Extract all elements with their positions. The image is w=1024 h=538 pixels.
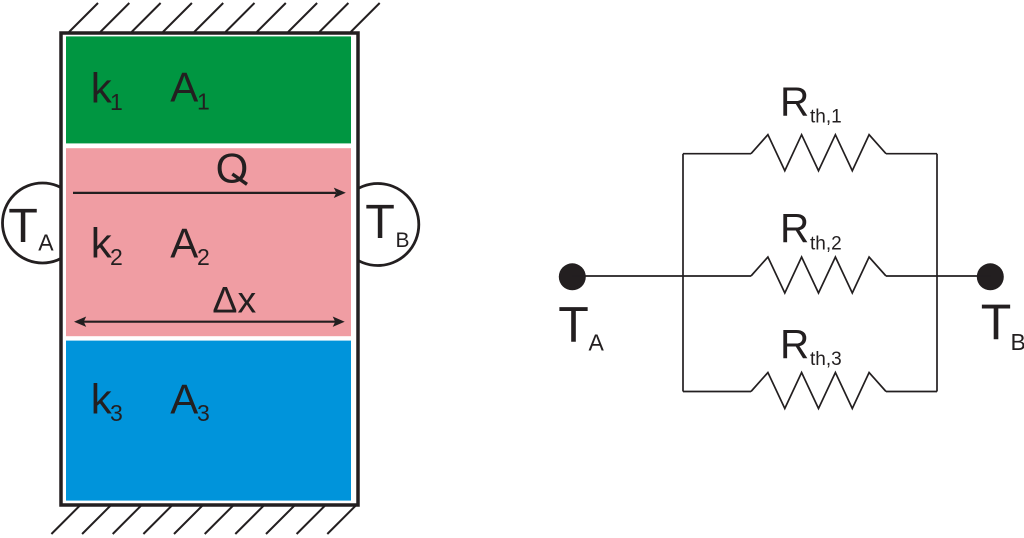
wire top-right lead bbox=[886, 153, 937, 155]
wire bottom-right lead bbox=[886, 391, 937, 393]
svg-text:2: 2 bbox=[197, 244, 210, 270]
svg-text:1: 1 bbox=[197, 89, 210, 115]
heat flow arrow Q bbox=[73, 192, 336, 194]
surface thermometer circle T_B (right) bbox=[337, 184, 419, 266]
node T_A dot bbox=[559, 263, 586, 290]
bottom wall hatching bbox=[51, 505, 356, 534]
svg-text:3: 3 bbox=[110, 400, 123, 426]
svg-text:A: A bbox=[589, 330, 605, 356]
svg-text:B: B bbox=[396, 229, 410, 252]
svg-text:2: 2 bbox=[110, 244, 123, 270]
resistor R_th,2 bbox=[751, 257, 886, 293]
svg-text:A: A bbox=[170, 64, 198, 111]
svg-text:1: 1 bbox=[110, 89, 123, 115]
svg-text:R: R bbox=[780, 78, 809, 124]
svg-text:T: T bbox=[8, 199, 38, 253]
svg-text:th,1: th,1 bbox=[810, 107, 842, 128]
wire left bus (vertical) bbox=[682, 154, 684, 392]
svg-text:B: B bbox=[1011, 329, 1024, 355]
resistor R_th,1 bbox=[751, 135, 886, 171]
thickness arrow delta-x (double headed) bbox=[83, 321, 336, 323]
svg-text:A: A bbox=[170, 376, 198, 423]
node T_B dot bbox=[977, 263, 1004, 290]
slab outer box bbox=[61, 33, 358, 505]
svg-text:Δx: Δx bbox=[212, 278, 256, 320]
wire right bus (vertical) bbox=[936, 154, 938, 392]
svg-text:T: T bbox=[558, 297, 589, 353]
svg-text:R: R bbox=[780, 321, 809, 367]
wire middle-left (from node T_A) bbox=[572, 275, 751, 277]
svg-text:th,2: th,2 bbox=[810, 234, 842, 255]
svg-text:th,3: th,3 bbox=[810, 349, 842, 370]
wire top-left lead bbox=[683, 153, 751, 155]
svg-text:T: T bbox=[981, 294, 1012, 350]
resistor R_th,3 bbox=[751, 373, 886, 409]
svg-text:3: 3 bbox=[197, 400, 210, 426]
wire bottom-left lead bbox=[683, 391, 751, 393]
wire middle-right (to node T_B) bbox=[886, 275, 990, 277]
top wall hatching bbox=[69, 3, 380, 32]
svg-text:T: T bbox=[365, 195, 395, 249]
layer 3 fill (blue) bbox=[66, 341, 351, 501]
svg-text:A: A bbox=[38, 230, 54, 256]
svg-text:A: A bbox=[170, 220, 198, 267]
layer 1 fill (green) bbox=[66, 36, 351, 143]
svg-text:R: R bbox=[780, 205, 809, 251]
layer 2 fill (pink) bbox=[66, 148, 351, 336]
svg-text:O: O bbox=[216, 145, 249, 192]
surface thermometer circle T_A (left) bbox=[3, 183, 83, 263]
